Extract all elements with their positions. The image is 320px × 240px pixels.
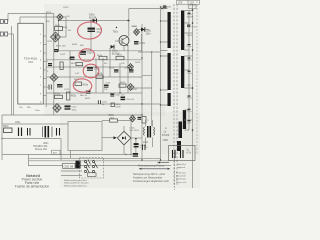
svg-text:C611: C611 bbox=[47, 41, 53, 43]
svg-text:Netz-Pot.: Netz-Pot. bbox=[177, 163, 187, 166]
pin 2 bbox=[40, 43, 46, 45]
svg-text:Deluxe 16A: Deluxe 16A bbox=[35, 148, 47, 151]
diode D68x bbox=[127, 84, 134, 91]
capacitor C60a bbox=[15, 122, 22, 136]
wire J1 link bbox=[7, 21, 9, 23]
capacitor C64x bbox=[110, 94, 125, 97]
wire left feed bbox=[8, 14, 57, 24]
resistor R63x bbox=[111, 103, 121, 108]
node label 265V bbox=[187, 35, 192, 37]
transformer TR60 core bbox=[174, 4, 177, 186]
svg-text:U61: U61 bbox=[28, 60, 33, 64]
wire h124 bbox=[2, 123, 68, 125]
svg-text:R63x: R63x bbox=[83, 84, 89, 87]
wire h104 bbox=[46, 103, 160, 105]
node label R71x bbox=[187, 98, 193, 100]
diode D65x bbox=[130, 115, 136, 122]
svg-text:abgleich: abgleich bbox=[177, 167, 186, 169]
svg-text:-USB: -USB bbox=[162, 139, 168, 142]
capacitor C70x bbox=[187, 25, 197, 29]
wire v151 bbox=[129, 52, 152, 126]
junction dots main bbox=[1, 6, 163, 160]
diode D67x bbox=[53, 104, 61, 113]
node label 12V bbox=[187, 123, 191, 125]
svg-text:R62x: R62x bbox=[71, 95, 77, 98]
capacitor C67y bbox=[121, 97, 135, 102]
text switch note bbox=[64, 179, 89, 187]
wire right dashed rail bbox=[196, 1, 198, 155]
resistor R61x bbox=[55, 92, 63, 98]
wire v61 bbox=[60, 139, 62, 161]
wire h138 bbox=[2, 138, 61, 140]
wire h171 bbox=[61, 170, 82, 172]
wire h77 bbox=[46, 76, 142, 78]
resistor R67x bbox=[60, 62, 63, 70]
svg-text:R617: R617 bbox=[117, 55, 123, 57]
svg-text:C63x: C63x bbox=[102, 101, 108, 103]
highlight ellipse E3 bbox=[83, 64, 99, 78]
capacitor C60b bbox=[28, 128, 31, 136]
transformer TR60 secondary winding bbox=[177, 11, 186, 152]
svg-text:C63x: C63x bbox=[94, 68, 100, 71]
pin 3 bbox=[40, 51, 46, 53]
wire bottom left vertical bbox=[1, 115, 3, 160]
highlight ellipse E4 bbox=[73, 78, 93, 93]
wire v70 drop bbox=[69, 151, 71, 159]
connector J2 bbox=[0, 32, 7, 36]
svg-text:C613: C613 bbox=[109, 68, 115, 70]
diode D61x bbox=[50, 74, 58, 82]
svg-text:D615: D615 bbox=[135, 62, 141, 64]
capacitor C65y bbox=[142, 117, 149, 124]
text Netzteil block bbox=[15, 173, 49, 189]
pin 7 bbox=[40, 85, 46, 87]
svg-text:Poten sich: Poten sich bbox=[176, 181, 187, 184]
capacitor C619 bbox=[86, 91, 91, 94]
pin 5 bbox=[40, 68, 46, 70]
wire h115 bbox=[2, 114, 142, 116]
svg-text:C610: C610 bbox=[63, 7, 69, 9]
node label U60x block bbox=[33, 143, 60, 155]
capacitor C61y bbox=[65, 105, 78, 111]
svg-text:R610: R610 bbox=[46, 12, 52, 14]
diode D64x bbox=[128, 64, 134, 71]
capacitor C74x under L60x bbox=[141, 145, 148, 151]
box degauss area bbox=[68, 122, 102, 151]
node label box right top bbox=[189, 5, 197, 9]
diode D62x bbox=[111, 45, 120, 56]
svg-text:Knattern am Netzschalter: Knattern am Netzschalter bbox=[133, 175, 162, 179]
wire right column drop bbox=[141, 24, 143, 160]
wire h158 bbox=[29, 157, 161, 159]
svg-text:C60x: C60x bbox=[146, 31, 152, 33]
svg-text:Wahlzuordnung Netzsch.: Wahlzuordnung Netzsch. bbox=[64, 184, 88, 187]
wire h154 bbox=[2, 154, 131, 156]
highlight ellipse E1 bbox=[77, 21, 102, 40]
wire mains top bbox=[59, 20, 129, 22]
text Netzspannung arrow label bbox=[138, 164, 170, 170]
node label C72x bbox=[187, 111, 193, 113]
diode D611 bbox=[57, 14, 64, 21]
svg-text:R621: R621 bbox=[85, 98, 91, 100]
resistor R60x bbox=[3, 125, 12, 132]
svg-text:U60x: U60x bbox=[43, 143, 49, 145]
resistor R60x 22ohm bbox=[102, 114, 131, 122]
node label +UB bbox=[187, 14, 194, 19]
capacitor marks right column bbox=[188, 13, 191, 122]
svg-text:BY206: BY206 bbox=[162, 134, 170, 137]
wire h58 bbox=[46, 59, 142, 61]
op-amp U61 IC box TDA4601 bbox=[18, 23, 44, 104]
svg-text:R614: R614 bbox=[72, 44, 78, 46]
svg-text:R616: R616 bbox=[97, 55, 103, 57]
svg-text:TDA4601 16A: TDA4601 16A bbox=[33, 145, 48, 148]
capacitor C66y bbox=[138, 117, 142, 120]
node label 25V bbox=[187, 85, 191, 87]
capacitor C61a bbox=[134, 143, 146, 147]
resistor R64x bbox=[99, 56, 107, 59]
wire collector drop bbox=[128, 9, 130, 37]
svg-text:1N4148: 1N4148 bbox=[129, 89, 137, 91]
svg-text:Pretection: Pretection bbox=[176, 178, 187, 181]
capacitor box C60x pair bbox=[169, 146, 196, 161]
wire h67 bbox=[46, 66, 128, 68]
capacitor C66x bbox=[114, 69, 119, 72]
wire v131 bbox=[130, 121, 132, 155]
wire col A right branch bbox=[61, 17, 67, 37]
wire pin bus bbox=[45, 14, 47, 108]
text right potent label bbox=[177, 163, 187, 169]
capacitor C67x bbox=[129, 69, 134, 72]
wire dashed divider bottom bbox=[174, 158, 176, 190]
diode D60x BY198 bbox=[89, 14, 97, 23]
svg-text:LTB: LTB bbox=[178, 1, 183, 4]
svg-text:100µ: 100µ bbox=[72, 109, 78, 111]
svg-text:Funkstorungen abgleichen sich: Funkstorungen abgleichen sich bbox=[133, 179, 169, 183]
svg-text:4,7n: 4,7n bbox=[187, 152, 192, 154]
svg-text:C617: C617 bbox=[132, 26, 138, 28]
text note navy left bbox=[133, 172, 169, 183]
resistor R611 bbox=[55, 25, 72, 32]
wire h175 bbox=[61, 175, 82, 177]
svg-text:C60x: C60x bbox=[15, 122, 21, 124]
text note navy right bbox=[176, 172, 187, 184]
node label under IC bbox=[19, 107, 40, 112]
pin 9 bbox=[40, 102, 46, 104]
resistor R66x bbox=[96, 75, 103, 78]
svg-text:25V: 25V bbox=[187, 85, 191, 87]
svg-text:C612: C612 bbox=[60, 54, 66, 56]
capacitor C73x top bbox=[163, 6, 172, 9]
wire h160 bbox=[29, 160, 172, 162]
svg-text:C6x 2n2: C6x 2n2 bbox=[126, 99, 135, 101]
transformer TR60 primary winding bbox=[168, 12, 171, 106]
svg-text:L60x: L60x bbox=[143, 141, 149, 144]
resistor R65x bbox=[116, 56, 124, 59]
fuse SI60 bbox=[76, 161, 81, 169]
wire h48 bbox=[57, 50, 142, 52]
connector J1 bbox=[0, 20, 7, 24]
node label D70x bbox=[187, 60, 193, 62]
wire column A bbox=[54, 14, 59, 116]
svg-text:Protection: Protection bbox=[176, 172, 187, 175]
capacitor C62x bbox=[80, 51, 93, 55]
svg-text:C60x: C60x bbox=[140, 42, 146, 45]
capacitor C63x bbox=[98, 100, 108, 106]
inductor L60a choke bbox=[43, 126, 53, 138]
node label R70x bbox=[187, 46, 193, 48]
capacitor C65x bbox=[134, 41, 146, 45]
wire v91 bbox=[90, 21, 92, 51]
mains plug P60 bbox=[135, 139, 137, 155]
wire feedback rail bbox=[160, 7, 162, 160]
svg-text:Stellung 220V am Schalter: Stellung 220V am Schalter bbox=[64, 182, 89, 185]
node label CEE 88 bbox=[63, 163, 76, 168]
wire v96 bbox=[95, 58, 97, 93]
node label table LTB 110 bbox=[177, 0, 200, 4]
svg-text:12V: 12V bbox=[187, 123, 191, 125]
bridge rectifier D60x bbox=[102, 126, 142, 155]
wire v70 bbox=[69, 51, 71, 93]
wire v128 low bbox=[127, 45, 129, 93]
svg-text:5th potent: 5th potent bbox=[176, 175, 186, 178]
svg-text:C62x: C62x bbox=[87, 52, 93, 55]
wire v120 bbox=[119, 63, 121, 93]
wire v103 bbox=[102, 58, 104, 93]
capacitor C64x bbox=[57, 84, 63, 87]
svg-text:C616: C616 bbox=[105, 83, 111, 85]
capacitor C68x bbox=[70, 57, 75, 60]
junction dots right rail bbox=[192, 9, 194, 131]
svg-text:R6x 1k: R6x 1k bbox=[80, 95, 88, 97]
wire arrow capbox bbox=[158, 161, 170, 163]
wire right rail bbox=[189, 4, 193, 188]
svg-text:BY228: BY228 bbox=[187, 17, 194, 19]
capacitor C61x bbox=[88, 28, 103, 35]
svg-text:Netzspannung-Potent.: Netzspannung-Potent. bbox=[138, 164, 165, 168]
svg-text:C614: C614 bbox=[124, 68, 130, 70]
svg-text:110°: 110° bbox=[190, 1, 195, 4]
node label C71x bbox=[187, 73, 193, 75]
diode D612 bbox=[51, 32, 61, 42]
capacitor C69x bbox=[104, 85, 109, 88]
resistor R63x bbox=[75, 82, 89, 87]
pin 8 bbox=[40, 94, 46, 96]
inductor L60x bbox=[143, 120, 155, 147]
svg-text:100n: 100n bbox=[146, 33, 152, 35]
transistor T60x bbox=[113, 27, 130, 51]
svg-text:CEE 88: CEE 88 bbox=[64, 164, 74, 168]
pin 4 bbox=[40, 60, 46, 62]
svg-text:R620: R620 bbox=[120, 82, 126, 84]
svg-text:4µ7 350V: 4µ7 350V bbox=[130, 130, 140, 132]
pin 1 bbox=[40, 34, 46, 36]
svg-text:C615: C615 bbox=[64, 89, 70, 91]
wire primary stubs bbox=[161, 7, 168, 105]
highlight ellipse E2 bbox=[79, 49, 95, 61]
svg-text:Fuente de alimentacion: Fuente de alimentacion bbox=[15, 185, 49, 189]
pin 6 bbox=[40, 77, 46, 79]
resistor R622 bbox=[76, 63, 83, 66]
svg-text:R613: R613 bbox=[62, 27, 68, 29]
capacitor C76x bbox=[49, 85, 51, 90]
diode D66x feedback bbox=[136, 27, 161, 52]
wire J2 link bbox=[8, 33, 14, 35]
node label cluster mid bbox=[46, 7, 141, 100]
svg-text:T60x: T60x bbox=[113, 31, 119, 34]
svg-text:TDA 4601: TDA 4601 bbox=[24, 56, 38, 60]
wire h93 bbox=[46, 92, 142, 94]
capacitor C60c bbox=[57, 128, 60, 136]
capacitor C61b bbox=[133, 153, 138, 157]
switch box dashed bbox=[80, 158, 104, 179]
wire secondary stubs bbox=[184, 11, 192, 131]
svg-text:C64x 12n: C64x 12n bbox=[115, 95, 125, 97]
junction dot v151 bbox=[151, 51, 152, 52]
wire v28 bbox=[28, 155, 30, 167]
capacitor C75x bbox=[48, 63, 52, 66]
svg-text:R612 1k8: R612 1k8 bbox=[56, 46, 66, 48]
wire top rail bbox=[129, 8, 168, 10]
capacitor C63x bbox=[87, 67, 100, 71]
resistor R68x bbox=[119, 84, 126, 87]
wire v110 bbox=[109, 48, 111, 77]
node label BY206 bbox=[162, 127, 170, 142]
svg-text:470R: 470R bbox=[115, 106, 121, 108]
svg-text:265V: 265V bbox=[187, 35, 192, 37]
capacitor C618 bbox=[54, 49, 59, 52]
wire outer left bbox=[12, 26, 14, 115]
resistor R62x bbox=[67, 92, 78, 100]
svg-text:R611: R611 bbox=[55, 25, 61, 27]
wire h165 bbox=[28, 165, 171, 167]
svg-text:Wahlzuordnung der Netz: Wahlzuordnung der Netz bbox=[64, 179, 87, 182]
